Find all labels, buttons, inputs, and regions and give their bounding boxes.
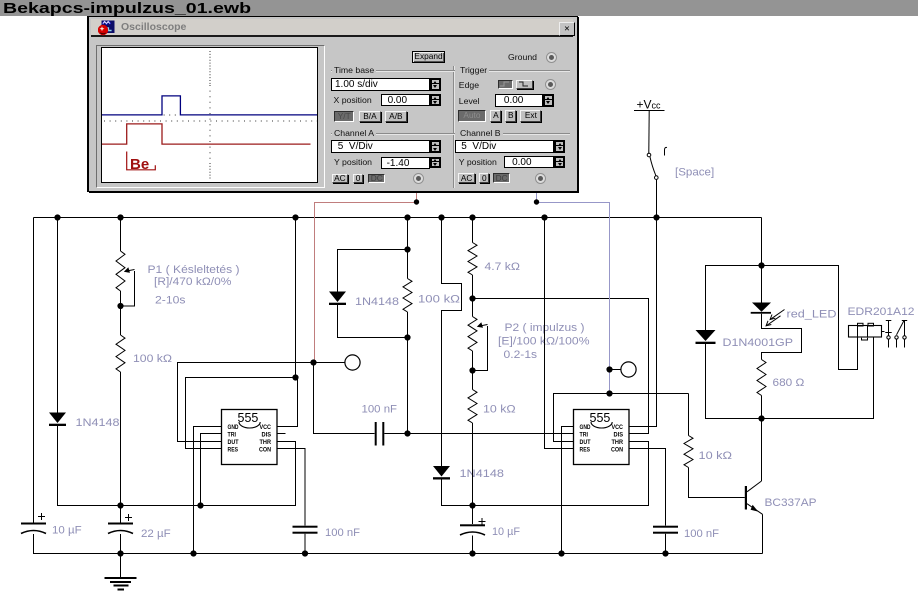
wire U1 OUT up — [178, 363, 314, 442]
junction — [310, 359, 316, 365]
svg-text:VCC: VCC — [612, 424, 624, 431]
svg-text:100 nF: 100 nF — [325, 527, 360, 539]
wire C6 to ground bus — [665, 534, 667, 554]
wire C4 to ground bus — [304, 534, 306, 554]
resistor R4 10k — [468, 390, 477, 424]
wire — [472, 275, 474, 299]
diode D3 1N4148 — [433, 466, 450, 480]
capacitor C4 100nF — [293, 526, 318, 534]
wire — [472, 371, 474, 390]
svg-text:CON: CON — [611, 447, 623, 454]
junction — [404, 214, 410, 220]
svg-text:0.2-1s: 0.2-1s — [504, 349, 538, 361]
LED D5 red_LED — [751, 303, 785, 326]
wire U1 TRI down — [201, 434, 222, 506]
wire Vcc to K1 coil left — [762, 266, 858, 370]
wire U2 GND to ground — [562, 427, 574, 554]
scope axis dots vertical — [209, 51, 211, 85]
svg-text:1N4148: 1N4148 — [460, 468, 505, 480]
scope trace channel A red — [102, 123, 311, 143]
wire R2 to TRI net — [407, 338, 409, 434]
wire scope channel A red — [315, 192, 417, 363]
wire Vcc to R3 — [472, 218, 474, 243]
capacitor C5 10uF — [460, 518, 486, 535]
resistor R6 10k — [684, 436, 693, 468]
svg-text:P1 ( Késleltetés ): P1 ( Késleltetés ) — [148, 264, 240, 276]
svg-text:RES: RES — [580, 447, 591, 454]
scope marker Be — [127, 151, 156, 169]
junction — [758, 415, 764, 421]
svg-text:DIS: DIS — [614, 432, 624, 439]
junction — [404, 430, 410, 436]
capacitor C3 100nF coupling — [375, 422, 385, 446]
scope axis dots horizontal — [102, 114, 317, 116]
wire scope channel B blue — [537, 192, 610, 394]
wire ground bottom bus — [34, 534, 763, 554]
svg-text:+Vcc: +Vcc — [637, 98, 662, 112]
resistor R5 680 — [757, 360, 766, 396]
wire OUT2 to connector — [610, 369, 621, 371]
switch J1 space — [647, 147, 667, 217]
wire D4 cathode to collector node — [706, 344, 762, 419]
wire OUT1 to C3 — [314, 363, 375, 434]
svg-text:10 µF: 10 µF — [52, 525, 82, 537]
svg-text:DUT: DUT — [580, 439, 591, 446]
svg-text:10 kΩ: 10 kΩ — [483, 404, 516, 416]
svg-text:1N4148: 1N4148 — [355, 296, 399, 308]
wire emitter to ground bus — [762, 514, 764, 553]
svg-text:red_LED: red_LED — [787, 309, 837, 321]
svg-text:100 kΩ: 100 kΩ — [133, 353, 172, 365]
junction — [653, 214, 659, 220]
svg-text:TRI: TRI — [580, 432, 589, 439]
wire U1 CON to C4 — [277, 449, 305, 526]
junction — [404, 246, 410, 252]
svg-text:VCC: VCC — [260, 424, 272, 431]
svg-text:2-10s: 2-10s — [155, 295, 186, 307]
wire Vcc jog to D3 — [442, 218, 462, 467]
svg-text:555: 555 — [590, 411, 611, 425]
ground — [105, 554, 137, 590]
node connector OUT2 — [621, 362, 636, 377]
wire — [472, 351, 474, 371]
wire OUT1 to connector — [314, 362, 345, 364]
scope trace channel B blue — [102, 95, 317, 114]
svg-text:680 Ω: 680 Ω — [773, 377, 805, 389]
junction — [662, 550, 668, 556]
wire node to C5 — [472, 506, 474, 525]
wire R4 to node — [472, 423, 474, 506]
op-amp U1 555 timer — [222, 410, 278, 465]
wire — [472, 299, 474, 317]
junction — [469, 502, 475, 508]
svg-text:100 kΩ: 100 kΩ — [418, 294, 460, 306]
wire Vcc to P1 — [120, 218, 122, 252]
svg-text:GND: GND — [228, 424, 239, 431]
capacitor C1 10uF — [21, 513, 46, 534]
wire R5 to node — [761, 396, 763, 419]
junction — [469, 367, 475, 373]
diode D2 1N4148 — [329, 292, 346, 306]
diode D1 1N4148 — [49, 413, 66, 427]
wire OUT2 to R6 — [688, 394, 690, 436]
svg-text:[E]/100 kΩ/100%: [E]/100 kΩ/100% — [498, 336, 590, 348]
relay K1 EDR201A12 coil — [849, 323, 885, 340]
wire U1 DIS stub — [277, 433, 286, 435]
wire left branch to C1 — [33, 218, 35, 523]
wire — [407, 312, 409, 338]
svg-text:THR: THR — [260, 439, 272, 446]
wire to D4 — [706, 266, 762, 331]
wire Vcc bus to U1 VCC net — [295, 218, 297, 378]
svg-text:22 µF: 22 µF — [141, 528, 171, 540]
svg-text:TRI: TRI — [228, 432, 237, 439]
svg-text:BC337AP: BC337AP — [765, 497, 817, 509]
resistor R3 4.7k — [468, 243, 477, 276]
junction — [404, 334, 410, 340]
junction — [469, 295, 475, 301]
svg-text:[Space]: [Space] — [675, 167, 714, 179]
wire to D2 anode — [338, 250, 408, 292]
wire D3 cathode to node — [442, 479, 473, 506]
junction — [558, 550, 564, 556]
svg-text:Be: Be — [130, 156, 149, 173]
junction — [117, 303, 123, 309]
wire LED jog to R5 — [762, 314, 802, 360]
svg-text:RES: RES — [228, 447, 239, 454]
svg-text:DIS: DIS — [262, 432, 272, 439]
svg-text:100 nF: 100 nF — [362, 404, 398, 416]
junction — [117, 214, 123, 220]
wire P2 node to U2 DIS — [473, 299, 649, 434]
transistor Q1 BC337AP — [745, 481, 763, 514]
junction — [117, 550, 123, 556]
resistor R2 100k — [403, 279, 412, 313]
wire U2 OUT to R6 — [554, 394, 689, 442]
wire U1 VCC up — [277, 378, 298, 427]
wire P1 to R1 — [120, 291, 122, 335]
power +Vcc — [634, 98, 665, 154]
wire R1 to C2 — [120, 372, 122, 523]
wire D2 cathode — [338, 305, 408, 338]
svg-text:[R]/470 kΩ/0%: [R]/470 kΩ/0% — [154, 276, 232, 288]
capacitor C6 100nF — [653, 526, 678, 534]
junction — [758, 262, 764, 268]
junction — [197, 502, 203, 508]
wire R6 to Q1 base — [689, 468, 745, 498]
wire C3 to U2 TRI — [384, 433, 573, 435]
wire D1 cathode to U1 THR — [58, 426, 296, 506]
svg-text:10 µF: 10 µF — [492, 526, 520, 538]
svg-text:THR: THR — [612, 439, 624, 446]
wire C5 to ground bus — [472, 536, 474, 554]
svg-text:D1N4001GP: D1N4001GP — [723, 337, 794, 349]
wire Vcc to D1 — [57, 218, 59, 413]
junction — [302, 550, 308, 556]
resistor P1 pot body — [116, 251, 125, 291]
junction — [541, 214, 547, 220]
resistor R1 100k — [116, 335, 125, 372]
svg-text:10 kΩ: 10 kΩ — [699, 450, 733, 462]
svg-text:555: 555 — [238, 411, 259, 425]
wire U2 RES to Vcc bus — [545, 218, 574, 449]
svg-text:DUT: DUT — [228, 439, 239, 446]
wire node to U2 THR — [473, 442, 649, 506]
junction — [292, 374, 298, 380]
junction — [606, 366, 612, 372]
potentiometer P2 wiper — [473, 322, 488, 370]
capacitor C2 22uF — [108, 514, 133, 534]
diode D4 D1N4001GP — [696, 330, 716, 344]
wire — [407, 250, 409, 279]
junction — [292, 214, 298, 220]
junction — [117, 502, 123, 508]
wire Vcc to R2 — [407, 218, 409, 250]
wire C2 to ground bus — [120, 534, 122, 554]
wire collector — [761, 419, 763, 482]
junction — [54, 214, 60, 220]
junction — [469, 214, 475, 220]
svg-text:4.7 kΩ: 4.7 kΩ — [485, 261, 521, 273]
junction — [469, 550, 475, 556]
resistor P2 pot body — [468, 317, 477, 352]
junction — [606, 390, 612, 396]
op-amp U2 555 timer — [574, 410, 630, 465]
svg-text:GND: GND — [580, 424, 591, 431]
svg-text:EDR201A12: EDR201A12 — [848, 306, 915, 318]
svg-text:100 nF: 100 nF — [684, 528, 719, 540]
junction — [534, 199, 539, 204]
junction — [414, 199, 419, 204]
wire U2 CON to C6 — [629, 449, 666, 526]
junction — [190, 550, 196, 556]
junction — [438, 214, 444, 220]
potentiometer P1 wiper — [121, 267, 135, 306]
wire U1 RES up — [186, 378, 296, 449]
svg-text:CON: CON — [259, 447, 271, 454]
svg-text:1N4148: 1N4148 — [76, 417, 120, 429]
relay K1 contacts — [885, 321, 907, 348]
wire bus corner down — [761, 218, 763, 266]
wire node to LED — [761, 266, 763, 303]
wire U2 VCC to Vcc bus — [629, 218, 657, 427]
node connector OUT1 — [345, 355, 360, 370]
wire Vcc top bus — [34, 217, 762, 219]
wire U1 GND to ground — [194, 427, 222, 554]
wire collector node to K1 coil right — [762, 338, 874, 419]
